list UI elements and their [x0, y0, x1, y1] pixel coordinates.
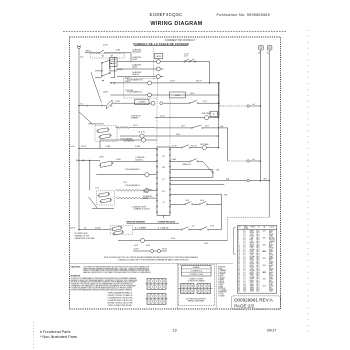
- svg-text:4-5 GY: 4-5 GY: [184, 53, 189, 55]
- wire A-B jog: [218, 127, 227, 129]
- svg-text:22: 22: [238, 267, 240, 269]
- svg-text:9-4: 9-4: [243, 236, 245, 238]
- svg-text:34: 34: [238, 287, 240, 289]
- wire warmer element row: [120, 135, 140, 137]
- svg-text:CAUTION:: CAUTION:: [71, 265, 81, 268]
- wire board right row 9.7B: [170, 193, 221, 195]
- svg-text:4-6: 4-6: [84, 227, 86, 229]
- svg-text:W-5 W: W-5 W: [162, 249, 167, 251]
- wire left rear row: [170, 147, 181, 149]
- wire board right row 9.7A: [170, 169, 213, 171]
- terminal block upper oven: [169, 92, 185, 98]
- dashed box touch lander group: [124, 79, 158, 99]
- svg-text:16: 16: [238, 256, 240, 258]
- surface element E3: [156, 75, 160, 79]
- svg-text:SE-6: SE-6: [256, 287, 259, 289]
- wire drawer switch row: [170, 203, 185, 205]
- svg-text:13: 13: [238, 251, 240, 253]
- svg-text:SE-5: SE-5: [256, 239, 259, 241]
- svg-text:RED: RED: [269, 280, 272, 282]
- lamp neutral: [247, 180, 249, 182]
- svg-text:2-2: 2-2: [243, 265, 245, 267]
- wire neutral return row: [170, 180, 247, 182]
- svg-text:2500W: 2500W: [143, 192, 148, 194]
- wire bake row to board: [142, 197, 157, 199]
- wire cooktop feed row: [85, 52, 98, 54]
- connector grid J2: [147, 294, 166, 305]
- svg-text:SE-3: SE-3: [256, 267, 259, 269]
- svg-text:3000W: 3000W: [132, 67, 137, 69]
- svg-text:1-7 W: 1-7 W: [95, 188, 100, 190]
- svg-text:RED: RED: [269, 246, 272, 248]
- junction bank riser: [110, 63, 111, 64]
- svg-text:SE-6: SE-6: [256, 241, 259, 243]
- svg-text:SE-8: SE-8: [256, 291, 259, 293]
- wire riser cooktop: [130, 53, 132, 62]
- svg-text:WHITE: WHITE: [269, 234, 274, 236]
- vertical wire right of board: [212, 170, 214, 178]
- wire board right row 184: [170, 183, 224, 185]
- svg-text:4-5: 4-5: [192, 226, 194, 228]
- wire riser surface to oven rows: [209, 62, 211, 83]
- svg-text:RED: RED: [269, 267, 272, 269]
- svg-text:YELLOW: YELLOW: [269, 239, 275, 241]
- svg-text:90-4: 90-4: [243, 289, 246, 291]
- svg-text:90.8: 90.8: [124, 182, 127, 184]
- element warmer E5: [140, 134, 144, 138]
- svg-text:SE-7: SE-7: [256, 274, 259, 276]
- svg-text:1-4: 1-4: [243, 275, 245, 277]
- svg-text:CODE: CODE: [244, 228, 248, 230]
- svg-text:36: 36: [238, 291, 240, 293]
- wire broiler row end: [209, 229, 222, 231]
- wire warmer row: [129, 127, 155, 129]
- svg-text:1-4 P.L.: 1-4 P.L.: [133, 125, 139, 127]
- svg-text:CTRL: CTRL: [250, 268, 254, 270]
- svg-text:2-6 GY: 2-6 GY: [160, 116, 165, 118]
- svg-text:9-4: 9-4: [162, 202, 164, 204]
- lamp A-C lower: [247, 160, 249, 162]
- svg-text:ELEME: ELEME: [250, 270, 255, 272]
- svg-text:10: 10: [238, 246, 240, 248]
- thermal cutoff TOD1: [150, 249, 153, 252]
- svg-text:4-1: 4-1: [243, 244, 245, 246]
- switch left rear S6: [181, 147, 182, 148]
- svg-text:WHITE: WHITE: [269, 261, 274, 263]
- svg-text:*-* CONTROL TO F.E.S.: *-* CONTROL TO F.E.S.: [189, 274, 205, 276]
- svg-text:SUPPLY CONNECTIONS PER NEC: SUPPLY CONNECTIONS PER NEC: [108, 305, 133, 307]
- switch selector contacts row1: [184, 61, 185, 62]
- svg-text:SE-5: SE-5: [256, 270, 259, 272]
- wire oven2 row: [113, 161, 134, 163]
- wire trunk diagonal bottom: [89, 197, 98, 209]
- table side bracket: [233, 228, 235, 255]
- motor touch lander M3: [141, 138, 145, 142]
- surface element E1: [156, 60, 160, 64]
- wire bus L2 vertical: [259, 50, 261, 181]
- svg-text:WHITE: WHITE: [269, 289, 274, 291]
- svg-text:WIRING DIAGRAM: WIRING DIAGRAM: [150, 21, 202, 27]
- svg-text:SE-1: SE-1: [256, 263, 259, 265]
- svg-text:PAGE:2/2: PAGE:2/2: [234, 304, 255, 309]
- svg-text:100W W.L.: 100W W.L.: [132, 74, 140, 76]
- svg-text:CTRL: CTRL: [250, 275, 254, 277]
- svg-text:WIRE: WIRE: [244, 226, 248, 228]
- svg-text:90-8 W: 90-8 W: [125, 81, 131, 83]
- svg-text:J WHITE: J WHITE: [218, 281, 224, 283]
- page cut mark right: [307, 30, 309, 332]
- svg-text:9-6: 9-6: [243, 239, 245, 241]
- contacts oven row: [86, 105, 87, 106]
- svg-text:RED: RED: [269, 274, 272, 276]
- svg-text:4-4: 4-4: [243, 249, 245, 251]
- svg-text:SE-0: SE-0: [256, 231, 259, 233]
- junction bus L2 end: [260, 180, 261, 181]
- riser upper: [91, 72, 94, 81]
- svg-text:1-5 W: 1-5 W: [210, 226, 215, 228]
- svg-text:90-4 BK: 90-4 BK: [95, 227, 102, 229]
- svg-text:#-# CENTER F.E.S.: #-# CENTER F.E.S.: [190, 271, 203, 273]
- wire trunk oven row: [79, 159, 100, 161]
- svg-text:NO UPPER LIGHT: NO UPPER LIGHT: [75, 233, 88, 235]
- svg-text:ELEME: ELEME: [250, 256, 255, 258]
- svg-text:SE-1: SE-1: [256, 279, 259, 281]
- svg-text:WHITE: WHITE: [269, 248, 274, 250]
- svg-text:D YELLOW: D YELLOW: [218, 272, 226, 274]
- element right rear E4: [205, 116, 209, 120]
- junction bus L2 tap upper: [260, 105, 261, 106]
- svg-text:SE-3: SE-3: [256, 251, 259, 253]
- wire lower light row: [170, 160, 190, 162]
- dashed box lower switch cluster: [97, 191, 115, 205]
- selector switch bank cooktop: [102, 60, 110, 76]
- svg-text:90-4: 90-4: [80, 57, 83, 59]
- svg-text:19: 19: [238, 261, 240, 263]
- svg-text:SE-3: SE-3: [256, 236, 259, 238]
- wire surface element row 2: [117, 68, 156, 70]
- dashed board continuation right: [169, 99, 171, 147]
- svg-text:105C: 105C: [263, 265, 266, 267]
- svg-text:2-1: 2-1: [243, 263, 245, 265]
- svg-text:F BLUE: F BLUE: [218, 276, 223, 278]
- wire stub touch upper: [99, 140, 101, 148]
- svg-text:90-1: 90-1: [267, 52, 270, 54]
- svg-text:20: 20: [238, 263, 240, 265]
- svg-text:4-1 BK: 4-1 BK: [116, 50, 120, 52]
- svg-text:9-8: 9-8: [162, 156, 164, 158]
- svg-text:90B/L1-4: 90B/L1-4: [86, 51, 92, 53]
- junction bus L2 tap lower: [260, 160, 261, 161]
- svg-text:4-4 W: 4-4 W: [204, 243, 209, 245]
- svg-text:ELEMENT W. 0.5/0.66: ELEMENT W. 0.5/0.66: [134, 209, 150, 211]
- svg-text:LEGEND: LEGEND: [193, 267, 200, 269]
- svg-text:4-8 W: 4-8 W: [176, 134, 181, 136]
- svg-text:09/17: 09/17: [267, 329, 277, 333]
- dashed boundary cooktop group: [153, 48, 155, 80]
- wire surface element row 3: [117, 76, 156, 78]
- svg-text:ELEME: ELEME: [250, 249, 255, 251]
- wire right rear row: [155, 117, 205, 119]
- svg-text:SE-2: SE-2: [256, 249, 259, 251]
- svg-text:SE-2: SE-2: [256, 280, 259, 282]
- svg-text:T SILVER: T SILVER: [218, 295, 224, 297]
- wire touch lander right row: [110, 82, 147, 84]
- svg-text:SE-0: SE-0: [256, 277, 259, 279]
- switch oven pswitch: [106, 100, 112, 109]
- svg-text:SURF: SURF: [250, 231, 254, 233]
- svg-text:BLUE: BLUE: [269, 243, 273, 245]
- terminal plug L1: [78, 46, 81, 49]
- svg-text:3-2: 3-2: [243, 258, 245, 260]
- element left rear E6: [202, 146, 206, 150]
- wire trunk diagonal to infinite switch: [79, 112, 93, 125]
- contact A2: [111, 55, 112, 56]
- svg-text:SE-1: SE-1: [256, 232, 259, 234]
- svg-text:23: 23: [238, 268, 240, 270]
- wire oven limiter row: [112, 102, 151, 104]
- svg-text:1200/2500W: 1200/2500W: [132, 51, 141, 53]
- svg-text:25: 25: [238, 272, 240, 274]
- svg-text:4-8 GY: 4-8 GY: [170, 81, 175, 83]
- switch infinite S4a: [98, 128, 108, 133]
- wire right front row: [155, 127, 191, 129]
- switch right front S5: [191, 127, 192, 128]
- svg-text:SE-4: SE-4: [256, 284, 259, 286]
- svg-text:P2: P2: [213, 114, 215, 116]
- switch cooktop S1: [98, 52, 99, 53]
- page cut mark left bottom: [33, 322, 35, 348]
- limiter box upper oven: [135, 99, 149, 104]
- wire TOD row: [133, 250, 150, 252]
- svg-text:33: 33: [238, 286, 240, 288]
- resistor broil R3: [116, 189, 142, 191]
- divider connector-list: [215, 264, 217, 310]
- svg-text:W. R. F.L.: W. R. F.L.: [139, 131, 146, 133]
- wire trunk to board row: [79, 147, 157, 149]
- svg-text:SURF: SURF: [250, 251, 254, 253]
- switch drawer S8c: [199, 204, 200, 205]
- svg-text:4-5: 4-5: [243, 251, 245, 253]
- svg-text:B RED: B RED: [218, 268, 222, 270]
- svg-text:BROILER DRAWER: BROILER DRAWER: [127, 221, 146, 224]
- junction trunk oven row: [78, 105, 79, 106]
- svg-text:1 LIMITER: 1 LIMITER: [138, 102, 145, 104]
- svg-text:3-4: 3-4: [243, 261, 245, 263]
- svg-text:SE-8: SE-8: [256, 260, 259, 262]
- svg-text:3-1: 3-1: [243, 256, 245, 258]
- svg-text:EI30EF4CQSC: EI30EF4CQSC: [149, 12, 182, 17]
- junction bus N mid: [269, 180, 270, 181]
- svg-text:9-1: 9-1: [243, 231, 245, 233]
- wire surface element row 1: [117, 61, 156, 63]
- svg-text:1-1: 1-1: [243, 270, 245, 272]
- switch broiler S11: [200, 229, 201, 230]
- svg-text:90-1 W: 90-1 W: [81, 146, 87, 148]
- svg-text:SE-8: SE-8: [256, 244, 259, 246]
- switch oven S3: [189, 103, 190, 104]
- surface element E2: [156, 67, 160, 71]
- thermal switch contacts oven: [151, 101, 155, 105]
- svg-text:17: 17: [238, 258, 240, 260]
- element broiler E7: [140, 238, 144, 242]
- svg-text:1-8/90-8: 1-8/90-8: [175, 95, 181, 97]
- svg-text:RED: RED: [269, 253, 272, 255]
- svg-text:4-6: 4-6: [243, 253, 245, 255]
- svg-text:90-1: 90-1: [243, 284, 246, 286]
- svg-text:3-6 W: 3-6 W: [171, 238, 176, 240]
- motor touch lander M5: [145, 188, 149, 192]
- svg-text:(CONSOLE STYLEMENT): (CONSOLE STYLEMENT): [188, 280, 206, 282]
- svg-text:90.5: 90.5: [162, 191, 165, 193]
- svg-text:4-7: 4-7: [243, 255, 245, 257]
- terminal L2 box: [259, 45, 264, 50]
- wire broil row to board: [149, 189, 157, 191]
- svg-text:CTRL: CTRL: [250, 255, 254, 257]
- svg-text:CTRL: CTRL: [250, 241, 254, 243]
- switch interlock S9a: [113, 226, 122, 231]
- svg-text:9-8: 9-8: [243, 243, 245, 245]
- svg-text:W-B: W-B: [264, 178, 267, 180]
- svg-text:SE-7: SE-7: [256, 243, 259, 245]
- switch lower light S7b: [190, 161, 191, 162]
- resistor warmer R1: [116, 127, 130, 129]
- svg-text:2-6: 2-6: [243, 268, 245, 270]
- wire oven2 row to board: [134, 161, 157, 163]
- svg-text:N LT BLUE: N LT BLUE: [218, 288, 225, 290]
- wire broiler row continue: [133, 229, 182, 231]
- legend mini table: [182, 266, 212, 277]
- svg-text:28: 28: [238, 277, 240, 279]
- svg-text:90.8: 90.8: [162, 167, 165, 169]
- svg-text:RED: RED: [269, 232, 272, 234]
- svg-text:SE-2: SE-2: [256, 234, 259, 236]
- svg-text:90-2: 90-2: [258, 52, 261, 54]
- wire right vertical riser: [217, 83, 219, 148]
- switch lower S8a: [99, 192, 109, 197]
- svg-text:90-3: 90-3: [243, 287, 246, 289]
- svg-text:CTRL: CTRL: [250, 237, 254, 239]
- svg-text:4-5 GY: 4-5 GY: [125, 78, 130, 80]
- connector detail box outline: [178, 265, 214, 306]
- wire touch lander left row: [110, 94, 147, 96]
- switch lower S8b: [101, 198, 111, 203]
- svg-text:4-17 W: 4-17 W: [172, 145, 178, 147]
- svg-text:105C: 105C: [263, 244, 266, 246]
- svg-text:LOWER W. L.: LOWER W. L.: [182, 164, 192, 166]
- svg-text:SURF: SURF: [250, 258, 254, 260]
- svg-text:WHITE: WHITE: [269, 268, 274, 270]
- wire table outline: [237, 226, 276, 294]
- dashed box infinite switch group: [95, 126, 117, 141]
- wire lower stub row: [92, 208, 114, 210]
- svg-text:CTRL: CTRL: [250, 248, 254, 250]
- svg-text:SE-1: SE-1: [256, 248, 259, 250]
- limiter box F1: [154, 54, 163, 59]
- terminal box mid right: [210, 111, 217, 117]
- svg-text:90-6: 90-6: [243, 291, 246, 293]
- svg-text:TOUR WINDER: TOUR WINDER: [123, 140, 135, 142]
- diagonal riser to oven switch: [94, 81, 102, 103]
- contact A1: [102, 55, 103, 56]
- svg-text:LIMITER: LIMITER: [156, 56, 162, 58]
- svg-text:9-7: 9-7: [243, 241, 245, 243]
- svg-text:1-2: 1-2: [243, 272, 245, 274]
- motor touch lander left M2: [148, 93, 152, 97]
- svg-text:Publication No: 5995655569: Publication No: 5995655569: [217, 13, 270, 17]
- wire stub terminal box: [217, 113, 218, 115]
- wire touch lander second row: [142, 189, 145, 191]
- svg-text:SURF: SURF: [250, 272, 254, 274]
- svg-text:3000W W.L.: 3000W W.L.: [135, 159, 144, 161]
- board tail stub: [163, 215, 165, 218]
- wire touch lander row upper: [100, 139, 141, 141]
- svg-text:SE-6: SE-6: [256, 272, 259, 274]
- svg-text:WHITE: WHITE: [269, 255, 274, 257]
- connector grid P2: [197, 284, 211, 294]
- svg-text:90-8 GY: 90-8 GY: [196, 81, 202, 83]
- svg-text:TOUCH BK: TOUCH BK: [125, 90, 134, 92]
- wire bus tap upper A-C: [218, 105, 247, 107]
- wire bus N vertical: [268, 50, 270, 217]
- motor touch lander right M1: [148, 81, 152, 85]
- svg-text:# Functional Parts: # Functional Parts: [40, 330, 71, 334]
- svg-text:21: 21: [238, 265, 240, 267]
- svg-text:SE-8: SE-8: [256, 275, 259, 277]
- svg-text:SPCL: SPCL: [263, 251, 267, 253]
- junction trunk board: [78, 148, 79, 149]
- svg-text:ATTENTION:: ATTENTION:: [71, 275, 82, 278]
- svg-text:SE-5: SE-5: [256, 255, 259, 257]
- svg-text:90-1: 90-1: [81, 103, 84, 105]
- svg-text:BROWN: BROWN: [269, 237, 274, 239]
- wire right riser upper: [218, 83, 220, 118]
- svg-text:SURF: SURF: [250, 279, 254, 281]
- wire vertical jog drop: [227, 217, 229, 240]
- wire vertical A-B riser: [227, 128, 229, 161]
- connector grid P1: [181, 284, 195, 294]
- dashed box drawer interlock: [111, 226, 133, 235]
- svg-text:15: 15: [238, 255, 240, 257]
- wire bank feed row: [95, 70, 101, 72]
- wire bank row lower: [95, 77, 101, 79]
- svg-text:RED: RED: [269, 287, 272, 289]
- svg-text:SE-4: SE-4: [256, 253, 259, 255]
- wire broiler element row: [118, 240, 140, 242]
- svg-text:90-6 W: 90-6 W: [70, 227, 76, 229]
- svg-text:35: 35: [238, 289, 240, 291]
- svg-text:4-4 W: 4-4 W: [134, 245, 139, 247]
- svg-text:N. O. ELEMENT: N. O. ELEMENT: [135, 227, 146, 229]
- svg-text:4-7 BK: 4-7 BK: [103, 44, 108, 46]
- terminal N box: [267, 45, 272, 50]
- junction riser: [209, 82, 210, 83]
- svg-text:1700W: 1700W: [132, 59, 137, 61]
- switch slanted oven S7: [101, 161, 112, 167]
- svg-text:9-5: 9-5: [162, 179, 164, 181]
- svg-text:SE-3: SE-3: [256, 282, 259, 284]
- svg-text:4-2: 4-2: [243, 246, 245, 248]
- svg-text:CONNECT CONTROL: CONNECT CONTROL: [189, 278, 204, 280]
- svg-text:9.7B: 9.7B: [224, 194, 227, 196]
- svg-text:3-4 W: 3-4 W: [146, 245, 151, 247]
- svg-text:1-5: 1-5: [243, 277, 245, 279]
- svg-text:1-8: 1-8: [243, 282, 245, 284]
- diagram outer border: [70, 37, 281, 309]
- svg-text:D00929961 REV:A: D00929961 REV:A: [234, 298, 274, 303]
- svg-text:29: 29: [238, 279, 240, 281]
- motor touch lander M4: [145, 173, 149, 177]
- svg-text:SE-7: SE-7: [256, 289, 259, 291]
